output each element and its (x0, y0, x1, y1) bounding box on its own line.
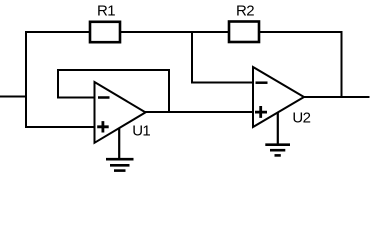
wire: top horizontal from R1 to R2 (120, 31, 229, 33)
ground: U1 ground bar 2 (110, 164, 130, 167)
wire: U1 feedback right vertical down to output (168, 69, 170, 112)
svg-text:R1: R1 (97, 2, 115, 19)
wire: U1 non-inverting input horizontal (25, 126, 94, 128)
wire: right vertical from top wire down to output node (341, 31, 343, 98)
wire: U1 inverting input horizontal (57, 97, 94, 99)
op-amp U2 (253, 67, 304, 127)
ground: U2 ground bar 1 (265, 143, 290, 146)
ground: U1 ground bar 3 (114, 169, 126, 172)
wire: left vertical bus x=26 (25, 31, 27, 128)
ground: U2 ground bar 2 (270, 149, 285, 152)
pin: U1 non-inverting input plus sign (97, 121, 109, 132)
ground: U2 ground stem (277, 112, 279, 144)
wire: U1 feedback left vertical (57, 69, 59, 99)
svg-text:U1: U1 (132, 122, 150, 139)
pin: U2 inverting input minus sign (256, 81, 268, 84)
ground: U2 ground bar 3 (275, 154, 281, 157)
pin: U2 non-inverting input plus sign (255, 106, 267, 118)
wire: top horizontal from left bus to R1 (25, 31, 90, 33)
op-amp U1 (95, 82, 146, 143)
wire: U1 output to U2 non-inverting input (144, 111, 253, 113)
wire: U1 feedback top horizontal (57, 69, 170, 71)
wire: top horizontal from R2 to right corner (259, 31, 343, 33)
wire: horizontal into U2 inverting input (191, 82, 253, 84)
ground: U1 ground stem (118, 128, 120, 159)
pin: U1 inverting input minus sign (98, 96, 110, 99)
svg-text:R2: R2 (236, 2, 254, 19)
resistor R1 (90, 22, 120, 42)
svg-text:U2: U2 (292, 109, 310, 126)
ground: U1 ground bar 1 (106, 158, 134, 161)
wire: middle vertical from top wire down (node between R1 and R2) (191, 31, 193, 84)
wire: left input stub (node Vin) (0, 96, 27, 98)
resistor R2 (229, 22, 259, 43)
wire: U2 output horizontal to right edge (node Vout) (303, 96, 370, 98)
